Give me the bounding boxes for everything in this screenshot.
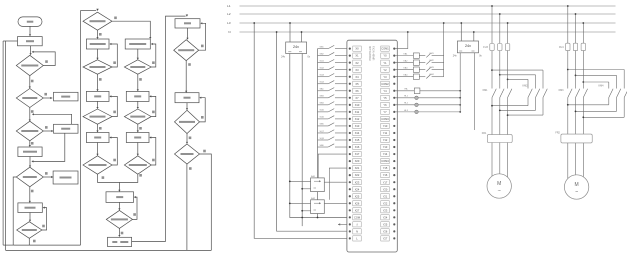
wire phase 2 to FR M1 <box>499 133 501 136</box>
PLC right terminal Y15 <box>381 166 389 171</box>
svg-text:N: N <box>228 30 230 34</box>
heater element FR1 2 <box>498 136 502 142</box>
wire loop vert 3 M1 <box>527 79 529 88</box>
wire L3 to TR2 <box>460 23 462 41</box>
wire phase 3 drop M2 <box>582 23 584 43</box>
relay KA1 <box>311 178 325 192</box>
svg-text:Y21: Y21 <box>383 194 388 198</box>
PLC left terminal X0 <box>349 48 351 50</box>
process box issue auto run signal <box>18 147 42 157</box>
PLC right terminal Y3 <box>381 74 389 79</box>
wire FR to motor 1 M1 <box>491 143 493 177</box>
PLC left terminal X20 <box>349 160 351 162</box>
contactor KM1 pole 2 <box>500 89 504 98</box>
output row KM2 coil <box>395 62 413 64</box>
process box manual trolley <box>18 203 42 213</box>
output row KM4 coil <box>395 76 413 78</box>
wire loop return 1 M2 <box>568 104 609 106</box>
wire D4 no to R5 <box>43 176 53 178</box>
PLC left terminal COM <box>349 216 351 218</box>
svg-text:SQ5: SQ5 <box>320 110 325 112</box>
input switch SQ4 row X5 <box>318 83 329 85</box>
label yes D4 <box>31 190 34 193</box>
process box final stop <box>108 237 132 246</box>
label no D2 <box>44 93 47 96</box>
decision D2 auto mode <box>16 89 43 108</box>
wire KA1 left b <box>302 188 310 190</box>
svg-text:Y7: Y7 <box>383 110 387 114</box>
svg-text:Y24: Y24 <box>383 215 388 219</box>
process box manual operate <box>54 92 79 101</box>
wire feed column2 top <box>81 10 97 12</box>
input switch SB4 row X8 <box>318 104 329 106</box>
output row KM3 coil <box>395 69 413 71</box>
wire C3d to C3e <box>137 124 139 131</box>
PLC right terminal Y5 <box>381 95 389 100</box>
PLC box FX2N-48MR <box>347 40 397 252</box>
fuse FU4 pole 1 <box>566 43 570 50</box>
fuse FU3 pole 2 <box>498 44 502 51</box>
wire TR2 0v bus <box>473 53 475 130</box>
svg-text:Y0: Y0 <box>383 54 387 58</box>
svg-text:SQ1: SQ1 <box>320 60 325 62</box>
PLC left terminal X1 <box>349 55 351 57</box>
label no C2a <box>114 17 117 20</box>
decision C4e back to origin <box>175 144 200 164</box>
svg-text:Y4: Y4 <box>383 89 387 93</box>
wire FR to motor 3 M2 <box>582 143 584 177</box>
label yes C4b <box>188 63 191 66</box>
input switch SB3 row X7 <box>318 97 329 99</box>
svg-text:X15: X15 <box>355 138 360 142</box>
PLC left terminal X3 <box>349 69 351 71</box>
label yes C3d <box>139 127 142 130</box>
wire C3c to C3d <box>137 101 139 107</box>
process box C4c run <box>175 93 199 103</box>
fuse FU3 pole 3 <box>505 44 509 51</box>
wire phase 2 mid M1 <box>499 51 501 89</box>
wire KA1 out right <box>324 181 347 183</box>
wire C2f to C2g <box>97 143 99 155</box>
wire C3e to C3g <box>137 143 139 155</box>
wire C4a to C4b <box>187 28 189 38</box>
wire loop return 1 M1 <box>492 105 528 107</box>
output row buzzer <box>395 90 414 92</box>
svg-text:Y26: Y26 <box>383 229 388 233</box>
svg-text:X14: X14 <box>355 131 360 135</box>
PLC left terminal X23 <box>349 181 351 183</box>
wire C3g no-loop <box>150 138 156 166</box>
wire Dm2 to final <box>118 228 120 235</box>
wire C2e no-loop <box>110 96 117 116</box>
svg-text:X16: X16 <box>355 145 360 149</box>
svg-text:X20: X20 <box>355 159 360 163</box>
label no D4 <box>45 172 48 175</box>
wire TR2 24v bus <box>459 53 461 112</box>
wire D3 to R4 <box>29 141 31 146</box>
wire D2 to D3 <box>29 108 31 121</box>
junction branch 3 M1 <box>507 79 509 81</box>
PLC right terminal Y0 <box>381 53 389 58</box>
svg-text:X10: X10 <box>355 103 360 107</box>
process box C3e go left <box>126 133 149 143</box>
svg-text:X3: X3 <box>355 68 359 72</box>
svg-text:KM4: KM4 <box>599 85 605 88</box>
PLC right terminal Y26 <box>381 229 389 234</box>
PLC right terminal Y24 <box>381 215 389 220</box>
PLC right terminal Y21 <box>381 194 389 199</box>
PLC left terminal X11 <box>349 111 351 113</box>
wire phase 3 mid M1 <box>507 51 509 89</box>
wire 24v bus <box>290 54 348 218</box>
heater element FR2 3 <box>581 135 585 141</box>
svg-text:FU3: FU3 <box>483 46 488 49</box>
wire C2g merge <box>98 174 120 182</box>
svg-text:X0: X0 <box>355 47 359 51</box>
wire C3g merge <box>119 174 137 182</box>
label no C3g <box>152 159 155 162</box>
svg-text:L2: L2 <box>227 12 231 16</box>
wire loop vert 2 M2 <box>616 75 618 88</box>
PLC right terminal Y17 <box>381 180 389 185</box>
svg-text:X1: X1 <box>355 54 359 58</box>
power rail L1 <box>240 5 616 7</box>
decision D3 press auto start <box>16 121 43 141</box>
svg-text:X4: X4 <box>355 75 359 79</box>
svg-text:SQ6: SQ6 <box>320 117 325 119</box>
PLC right terminal Y23 <box>381 208 389 213</box>
wire D1 no-loop <box>33 52 55 66</box>
wire C2a to C2b <box>97 30 99 38</box>
transformer TR1 24v <box>286 42 307 54</box>
junction 0v-COM <box>301 217 303 219</box>
svg-text:Y16: Y16 <box>383 173 388 177</box>
wire master return into init <box>3 40 17 42</box>
wire master left riser <box>5 41 7 250</box>
ground arrow PLC <box>338 223 347 225</box>
decision Dm2 reach B pos <box>106 210 132 228</box>
svg-text:SQ4: SQ4 <box>320 82 325 84</box>
process box C3a pause stop <box>125 39 150 49</box>
svg-text:Y2: Y2 <box>383 68 387 72</box>
wire phase 2 drop M1 <box>499 14 501 44</box>
PLC right terminal Y12 <box>381 137 389 142</box>
svg-text:Y17: Y17 <box>383 180 388 184</box>
wire phase 2 mid M2 <box>575 51 577 89</box>
PLC right terminal Y1 <box>381 60 389 65</box>
svg-text:Y15: Y15 <box>383 166 388 170</box>
svg-text:COM3: COM3 <box>381 117 389 121</box>
contactor KM3 pole 1 <box>568 89 572 98</box>
input switch SB2 row X1 <box>318 55 329 57</box>
PLC left terminal X12 <box>349 118 351 120</box>
junction branch 2 M1 <box>499 74 501 76</box>
wire phase 1 to FR M2 <box>567 133 569 135</box>
PLC right terminal Y27 <box>381 236 389 241</box>
svg-text:FX2N-48MR: FX2N-48MR <box>372 46 376 61</box>
wire C2c to C2d <box>97 74 99 90</box>
PLC left terminal X7 <box>349 97 351 99</box>
PLC right terminal Y16 <box>381 173 389 178</box>
wire oval to init <box>29 26 31 35</box>
svg-text:24v: 24v <box>465 44 471 48</box>
decision D1 task issued <box>16 55 43 75</box>
PLC left terminal X16 <box>349 146 351 148</box>
input switch SQ5 row X9 <box>318 111 329 113</box>
svg-text:Y22: Y22 <box>383 201 388 205</box>
input switch SQ8 row X13 <box>318 139 329 141</box>
motor M M1 <box>487 174 511 198</box>
label yes D2 <box>31 110 34 113</box>
svg-text:COM: COM <box>354 215 360 219</box>
wire C2e to C2f <box>97 124 99 131</box>
wire KA2 out right <box>324 202 347 204</box>
wire D1 to D2 <box>29 76 31 88</box>
svg-text:Y5: Y5 <box>383 96 387 100</box>
wire inner left riser <box>2 41 4 245</box>
PLC left terminal X27 <box>349 209 351 211</box>
PLC left terminal X22 <box>349 174 351 176</box>
wire COM1 to N rail <box>395 32 407 49</box>
thermal relay FR1 <box>487 135 512 143</box>
output row KM1 coil <box>395 55 413 57</box>
wire master bottom rail <box>6 249 212 251</box>
PLC left terminal X6 <box>349 90 351 92</box>
wire R3 top loop to J2 <box>33 114 72 124</box>
output row lamp HL2 <box>395 104 414 106</box>
svg-text:N: N <box>356 229 358 233</box>
label yes C3g <box>139 174 142 177</box>
node J1 entry of D1 <box>30 46 32 54</box>
wire branch top 1 M2 <box>568 69 624 71</box>
svg-text:X25: X25 <box>355 194 360 198</box>
PLC right terminal Y6 <box>381 102 389 107</box>
contactor KM4 pole 1 <box>624 89 627 98</box>
label no C4e <box>189 167 192 170</box>
decision C2e upper limit <box>83 109 112 124</box>
wire C2g no-loop <box>110 138 117 166</box>
wire N drop to PLC N <box>277 32 348 231</box>
svg-text:KM3: KM3 <box>559 89 565 92</box>
wire loop vert 3 M2 <box>608 82 610 89</box>
decision C4d trolley in place <box>175 110 200 133</box>
svg-text:Y10: Y10 <box>383 124 388 128</box>
junction branch 1 M1 <box>491 69 493 71</box>
svg-text:Y12: Y12 <box>383 138 388 142</box>
wire L3 drop to PLC L <box>254 23 347 238</box>
wire C2a no to column3 <box>112 21 150 38</box>
svg-text:X5: X5 <box>355 82 359 86</box>
PLC left terminal X4 <box>349 76 351 78</box>
svg-text:MITSUBISHI: MITSUBISHI <box>368 46 372 61</box>
label no C3d <box>152 111 155 114</box>
decision D5 reach start pos <box>17 222 42 239</box>
contactor KM1 pole 3 <box>508 89 512 98</box>
process box init <box>18 37 43 46</box>
svg-text:SQ3: SQ3 <box>320 75 325 77</box>
wire phase 3 mid M2 <box>582 51 584 89</box>
wire phase 3 to FR M1 <box>507 133 509 136</box>
wire D4 left vertex down <box>13 177 16 245</box>
node J3 entry of D4 <box>29 157 31 167</box>
PLC left terminal L <box>349 237 351 239</box>
decision C3b reach end <box>124 60 151 74</box>
svg-text:SQ2: SQ2 <box>320 67 325 69</box>
PLC left terminal X10 <box>349 104 351 106</box>
PLC left terminal X17 <box>349 153 351 155</box>
svg-text:FU4: FU4 <box>559 46 564 49</box>
input switch SB1 row X0 <box>318 48 329 50</box>
wire input common bus <box>317 49 319 218</box>
label no C2e <box>113 111 116 114</box>
decision D4 wait auto start <box>16 167 43 187</box>
svg-text:X12: X12 <box>355 117 360 121</box>
label yes C2e <box>99 127 102 130</box>
svg-text:Y25: Y25 <box>383 222 388 226</box>
transformer TR2 24v <box>457 41 478 53</box>
output row lamp HL1 <box>395 97 414 99</box>
wire branch top 2 M2 <box>576 74 617 76</box>
wire Rm1 to Dm2 <box>118 202 120 209</box>
svg-text:Y6: Y6 <box>383 103 387 107</box>
svg-text:KM2: KM2 <box>523 85 529 88</box>
svg-text:Y3: Y3 <box>383 75 387 79</box>
wire feed column2 riser <box>80 11 82 246</box>
wire C4b no-loop <box>198 23 206 50</box>
svg-text:~: ~ <box>498 189 501 195</box>
label no C3b <box>152 61 155 64</box>
wire C4c to C4d <box>186 103 188 109</box>
wire phase 1 drop M1 <box>491 6 493 44</box>
wire KA2 left a <box>290 202 311 204</box>
svg-text:X21: X21 <box>355 166 360 170</box>
heater element FR2 2 <box>574 135 578 141</box>
label no C4d <box>201 116 204 119</box>
wire merge drop <box>118 182 120 190</box>
PLC left terminal N <box>349 230 351 232</box>
process box C4a rise <box>175 19 200 28</box>
process box merged trolley <box>106 192 134 203</box>
input switch SB6 row X14 <box>318 146 329 148</box>
process box C2f go right <box>86 133 109 143</box>
wire D5 no-loop to R6 <box>42 208 47 230</box>
PLC right terminal Y10 <box>381 123 389 128</box>
heater element FR1 1 <box>490 136 494 142</box>
junction branch 1 M2 <box>567 69 569 71</box>
wire phase 3 drop M1 <box>507 23 509 44</box>
input switch SQ1 row X2 <box>318 62 329 64</box>
output row lamp HL3 <box>395 111 414 113</box>
wire KA2 left b <box>302 210 310 212</box>
flowchart start oval <box>18 17 42 27</box>
label yes D5 <box>33 240 36 243</box>
wire L3 to TR1 <box>289 23 291 42</box>
label yes C4e <box>203 150 206 153</box>
wire phase 2 drop M2 <box>575 14 577 43</box>
wire branch top 3 M1 <box>508 78 528 80</box>
wire C3b to C3c <box>137 74 139 90</box>
svg-text:Y27: Y27 <box>383 237 388 241</box>
wire 0v bus <box>301 54 303 227</box>
label yes C2a <box>99 33 102 36</box>
wire phase 2 to FR M2 <box>575 133 577 135</box>
wire KA1 left a <box>290 180 311 182</box>
svg-text:X13: X13 <box>355 124 360 128</box>
process box C2d rise <box>86 91 109 101</box>
contactor KM2 pole 2 <box>536 89 540 98</box>
wire loop return 3 M1 <box>508 114 543 116</box>
process box auto cycle <box>54 124 79 133</box>
svg-text:Y23: Y23 <box>383 208 388 212</box>
PLC left terminal X2 <box>349 62 351 64</box>
svg-text:X17: X17 <box>355 152 360 156</box>
label yes C4d <box>189 137 192 140</box>
label yes D3 <box>31 142 34 145</box>
PLC left terminal X15 <box>349 139 351 141</box>
wire C3b no-loop <box>151 44 156 67</box>
PLC left terminal X14 <box>349 132 351 134</box>
wire C4d to C4e <box>186 134 188 143</box>
label yes D1 <box>31 80 34 83</box>
fuse FU4 pole 2 <box>573 43 577 50</box>
label yes C2c <box>99 78 102 81</box>
wire KA2 out top <box>329 168 347 200</box>
wire FR to motor 3 M1 <box>507 143 509 178</box>
junction branch 3 M2 <box>582 81 584 83</box>
label no D3 <box>45 126 48 129</box>
svg-text:Y1: Y1 <box>383 61 387 65</box>
power rail L2 <box>240 13 616 15</box>
svg-text:X27: X27 <box>355 208 360 212</box>
PLC left terminal &#9178; <box>349 223 351 225</box>
contactor KM2 pole 3 <box>528 89 532 98</box>
svg-text:Y20: Y20 <box>383 187 388 191</box>
svg-text:⏚: ⏚ <box>356 222 359 226</box>
svg-text:X26: X26 <box>355 201 360 205</box>
junction branch 2 M2 <box>575 75 577 77</box>
decision C3g reach B point <box>124 156 151 174</box>
wire branch top 1 M1 <box>492 69 543 71</box>
svg-text:KM1: KM1 <box>483 89 489 92</box>
PLC left terminal X25 <box>349 195 351 197</box>
wire phase 1 mid M2 <box>567 51 569 89</box>
svg-text:SQ8: SQ8 <box>320 138 325 140</box>
wire C2c no-loop <box>110 44 117 67</box>
svg-text:~: ~ <box>575 190 578 196</box>
label no C2g <box>113 159 116 162</box>
decision C2g reach A point <box>83 156 112 174</box>
fuse FU3 pole 1 <box>490 44 494 51</box>
wire coil return bus <box>443 23 445 77</box>
decision C4b upper limit <box>174 40 199 61</box>
label yes Dm2 <box>121 232 124 235</box>
label yes C2g <box>102 176 105 179</box>
svg-text:X23: X23 <box>355 180 360 184</box>
contactor KM4 pole 3 <box>609 89 613 98</box>
decision C2c lower limit <box>83 60 112 74</box>
wire R6 to D5 <box>29 213 31 221</box>
svg-text:Y13: Y13 <box>383 145 388 149</box>
PLC right terminal Y2 <box>381 67 389 72</box>
wire phase 1 to FR M1 <box>491 133 493 136</box>
wire loop return 3 M2 <box>583 116 624 118</box>
PLC right terminal Y4 <box>381 88 389 93</box>
svg-text:X6: X6 <box>355 89 359 93</box>
svg-text:X11: X11 <box>355 110 360 114</box>
svg-text:Y14: Y14 <box>383 152 388 156</box>
input switch SQ6 row X10 <box>318 118 329 120</box>
contactor KM3 pole 2 <box>576 89 580 98</box>
